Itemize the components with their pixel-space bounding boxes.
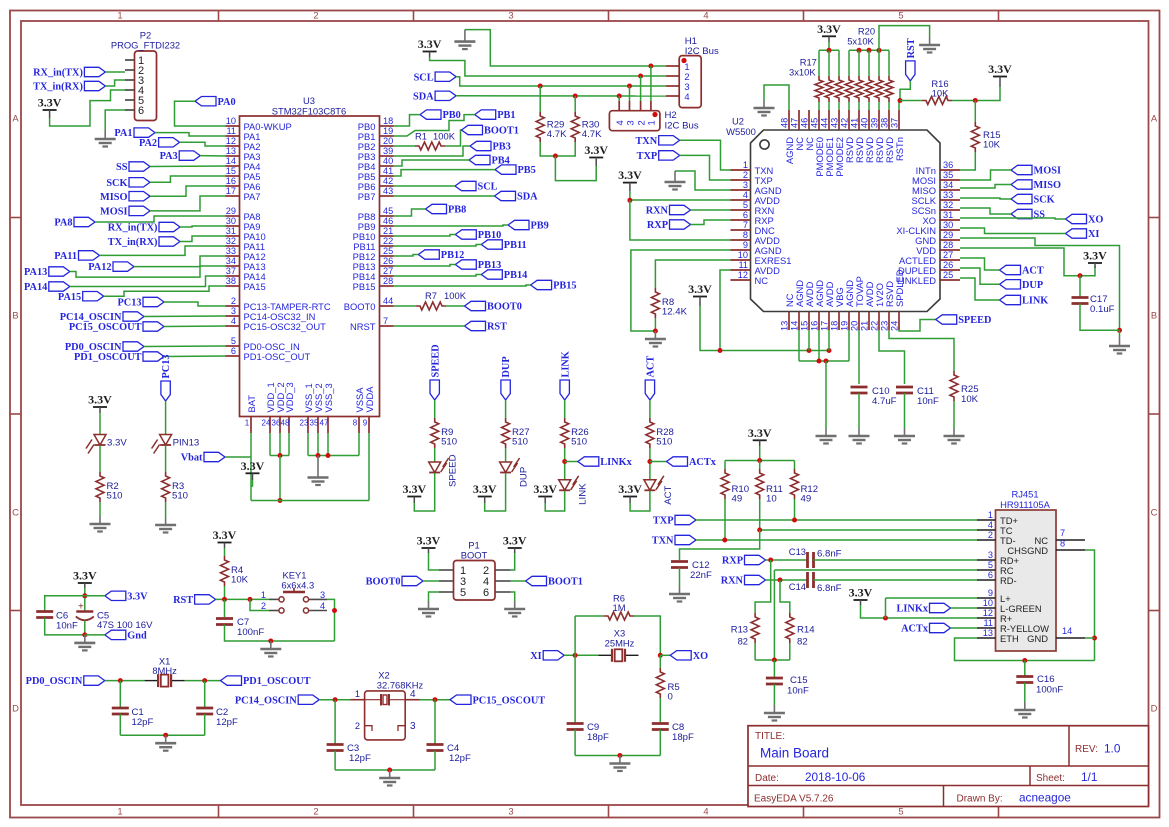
wire U3 pin 40 to PB4 xyxy=(394,160,470,166)
U2 pin 45 PMODE0 xyxy=(818,110,820,130)
svg-text:49: 49 xyxy=(732,494,743,505)
net flag RXN u2 xyxy=(670,205,691,214)
svg-text:1: 1 xyxy=(261,590,266,600)
wire PD0_OSCIN to X1 xyxy=(105,680,145,682)
junction X1 ground xyxy=(163,733,168,738)
resistor R11 xyxy=(756,469,764,499)
U2 pin 2 TXP xyxy=(731,179,751,181)
U3 pin 44 BOOT0 xyxy=(380,305,394,307)
svg-text:I2C Bus: I2C Bus xyxy=(665,121,699,132)
resistor R15 xyxy=(971,122,979,152)
wire C4 bottom xyxy=(434,751,436,771)
svg-text:4: 4 xyxy=(743,190,748,200)
svg-text:24: 24 xyxy=(890,321,900,331)
wire VDDA to rail xyxy=(368,433,370,501)
resistor R29 xyxy=(536,112,544,142)
svg-text:5: 5 xyxy=(988,560,993,570)
U2 pin 22 1V2O xyxy=(878,312,880,331)
junction X2 ground xyxy=(387,768,392,773)
U3 pin 16 PA6 xyxy=(226,185,240,187)
svg-text:11: 11 xyxy=(983,618,993,628)
svg-text:30: 30 xyxy=(943,220,953,230)
svg-text:16: 16 xyxy=(226,176,236,186)
svg-text:12pF: 12pF xyxy=(132,717,154,728)
svg-text:PB1: PB1 xyxy=(497,110,515,121)
wire TC row xyxy=(760,529,977,531)
U3 pin 27 PB14 xyxy=(380,275,394,277)
net flag ACT u2 xyxy=(1000,265,1021,274)
U2 pin 42 RSVD xyxy=(848,110,850,130)
resistor R4 xyxy=(221,556,229,586)
svg-text:R7: R7 xyxy=(425,290,437,301)
wire PA0 to U3 pin 10 xyxy=(175,101,226,126)
svg-text:PA2: PA2 xyxy=(139,138,157,149)
RJ451 pin 7 NC xyxy=(1056,539,1085,541)
svg-text:R13: R13 xyxy=(731,624,748,635)
U2 pin 24 SPDLED xyxy=(898,312,900,331)
svg-text:13: 13 xyxy=(983,628,993,638)
net flag RST u3 xyxy=(465,321,486,330)
svg-text:6.8nF: 6.8nF xyxy=(817,583,842,594)
net flag SCK u2 xyxy=(1011,194,1032,203)
svg-text:ACT: ACT xyxy=(646,356,657,378)
wire ground to H1 pin1 xyxy=(465,30,666,66)
svg-text:28: 28 xyxy=(943,240,953,250)
wire left riser R6 xyxy=(574,616,576,655)
svg-text:LINKx: LINKx xyxy=(600,457,632,468)
U2 pin 6 RXP xyxy=(731,219,751,221)
svg-text:LINK: LINK xyxy=(578,483,589,505)
svg-text:GND: GND xyxy=(1027,633,1048,644)
junction R30 on SDA xyxy=(573,94,578,99)
wire RC to C15 xyxy=(773,570,775,660)
wire MISO to U3 pin 16 xyxy=(150,186,226,196)
wire U3 pin 46 to PB9 xyxy=(394,225,509,226)
svg-text:41: 41 xyxy=(850,118,860,128)
U3 pin 22 PB11 xyxy=(380,245,394,247)
ground U2 AGND xyxy=(665,171,686,190)
wire R30 top xyxy=(574,96,576,112)
net flag PD0_OSCIN x1 xyxy=(84,676,105,685)
ground U2 AGND bus xyxy=(816,428,837,444)
svg-text:510: 510 xyxy=(441,437,457,448)
svg-text:PA11: PA11 xyxy=(54,251,77,262)
wire R11 bottom xyxy=(759,499,761,530)
X2 internal crystal glyph xyxy=(365,699,381,701)
wire U2 pin29 GND xyxy=(960,238,1120,330)
svg-text:1: 1 xyxy=(355,689,360,699)
X2 unused pin stubs xyxy=(365,726,372,731)
junction R10 TXN xyxy=(722,538,727,543)
svg-text:LINKx: LINKx xyxy=(897,604,929,615)
svg-text:ACT: ACT xyxy=(663,485,674,504)
wire 3.3V node xyxy=(84,588,86,612)
wire U3 pin 42 to SCL xyxy=(394,185,456,187)
U2 pin 12 NC xyxy=(731,279,751,281)
U2 pin 18 VBG xyxy=(838,312,840,331)
svg-text:RX_in(TX): RX_in(TX) xyxy=(33,68,83,79)
svg-text:3.3V: 3.3V xyxy=(418,37,442,51)
wire R27 to led xyxy=(505,448,507,462)
title block outline xyxy=(748,726,1149,807)
wire C6 bottom xyxy=(45,618,85,635)
wire 3.3V to LED1 xyxy=(99,413,101,434)
wire AGND bus to ground xyxy=(825,361,827,428)
net flag PB3 xyxy=(470,141,491,150)
junction VDD xyxy=(278,453,283,458)
svg-text:HR911105A: HR911105A xyxy=(1000,499,1050,510)
net flag PD1_OSCOUT x1 xyxy=(221,676,242,685)
wire RXN to R14 xyxy=(780,580,790,613)
svg-text:MOSI: MOSI xyxy=(100,207,127,218)
svg-text:27: 27 xyxy=(943,250,953,260)
frame column ticks xyxy=(218,11,220,22)
U3 pin 31 PA10 xyxy=(226,235,240,237)
wire U2 pin35 to MOSI xyxy=(960,170,1011,180)
RJ451 pin 2 TD- xyxy=(977,539,996,541)
svg-text:SCL: SCL xyxy=(414,72,434,83)
svg-text:XI: XI xyxy=(1088,229,1099,240)
wire C1 bottom xyxy=(119,714,121,735)
junction H2 pin2 on bus xyxy=(638,74,643,79)
svg-text:44: 44 xyxy=(820,118,830,128)
svg-text:6: 6 xyxy=(483,587,489,599)
svg-text:SCK: SCK xyxy=(1034,195,1055,206)
junction R29 on SCL xyxy=(538,84,543,89)
svg-text:10: 10 xyxy=(766,494,777,505)
R20 resistor at x=849 xyxy=(848,50,850,76)
net flag XI u2 xyxy=(1066,229,1087,238)
wire PA12 to U3 pin 33 xyxy=(134,256,226,267)
svg-text:CHSGND: CHSGND xyxy=(1007,545,1048,556)
svg-text:5: 5 xyxy=(460,587,466,599)
wire bottom 3.3V rail xyxy=(251,500,369,502)
svg-text:6: 6 xyxy=(231,346,236,356)
U3 pin 10 PA0-WKUP xyxy=(226,125,240,127)
svg-text:MISO: MISO xyxy=(1034,180,1061,191)
svg-text:4: 4 xyxy=(410,689,416,700)
svg-text:100nF: 100nF xyxy=(237,627,264,638)
wire C11 to ground xyxy=(904,393,906,428)
U2 pin 11 AVDD xyxy=(731,269,751,271)
wire U2 pin27 to ACT xyxy=(960,258,1000,270)
net flag PC15_OSCOUT xyxy=(143,322,164,331)
resistor R28 xyxy=(646,418,654,448)
svg-text:PA13: PA13 xyxy=(24,267,47,278)
wire LINK to R26 xyxy=(564,400,566,418)
svg-text:7: 7 xyxy=(743,220,748,230)
svg-text:PB14: PB14 xyxy=(504,270,527,281)
U2 pin 48 AGND xyxy=(788,110,790,130)
net flag PD1_OSCOUT xyxy=(143,352,164,361)
svg-text:3.3V: 3.3V xyxy=(1083,249,1107,263)
svg-text:48: 48 xyxy=(780,118,790,128)
svg-text:BOOT0: BOOT0 xyxy=(344,301,376,312)
wire U3 pin 28 to PB15 xyxy=(394,285,531,286)
U3 pin 3 PC14-OSC32_IN xyxy=(226,315,240,317)
wire SCL to H1 pin3 xyxy=(456,77,666,86)
svg-text:3.3V: 3.3V xyxy=(73,569,97,583)
junction 3.3V node xyxy=(82,593,87,598)
wire C5 bottom xyxy=(84,621,86,635)
svg-text:BOOT1: BOOT1 xyxy=(484,126,519,137)
P2 pin 2 xyxy=(125,69,135,71)
wire C2 top xyxy=(204,681,206,708)
svg-text:SCK: SCK xyxy=(106,178,127,189)
H1 pin 2 xyxy=(666,75,679,77)
svg-text:7: 7 xyxy=(1060,528,1065,538)
U3 pin 32 PA11 xyxy=(226,245,240,247)
net flag PB10 xyxy=(455,230,476,239)
U3 pin 29 PA8 xyxy=(226,215,240,217)
wire AGND16 riser xyxy=(818,330,820,361)
svg-text:48: 48 xyxy=(281,418,290,427)
svg-text:39: 39 xyxy=(383,146,393,156)
wire TX_in(RX) to U3 pin 31 xyxy=(180,236,226,242)
wire R10 bottom xyxy=(724,499,726,540)
net flag TX_in(RX) p2 xyxy=(84,81,105,90)
junction RST R4 xyxy=(222,597,227,602)
svg-text:DUP: DUP xyxy=(519,467,530,487)
wire C10 to ground xyxy=(858,393,860,428)
U3 pin 26 PB13 xyxy=(380,265,394,267)
ground R8 xyxy=(645,331,666,347)
svg-text:RST: RST xyxy=(906,38,917,58)
svg-text:Main Board: Main Board xyxy=(760,746,829,761)
wire TOVAP to C10 xyxy=(858,330,860,384)
svg-text:4: 4 xyxy=(231,316,236,326)
svg-text:21: 21 xyxy=(383,226,393,236)
wire BAT rail xyxy=(250,433,252,501)
svg-text:1: 1 xyxy=(646,120,657,125)
ground R2 xyxy=(90,516,111,532)
U2 pin 1 TXN xyxy=(731,169,751,171)
svg-text:RD-: RD- xyxy=(1000,575,1017,586)
resistor R5 xyxy=(656,668,664,698)
net flag ACTx rj xyxy=(930,623,951,632)
wire RXP to R13 xyxy=(755,560,771,613)
svg-text:DUP: DUP xyxy=(1022,280,1043,291)
resistor R14 xyxy=(786,613,794,643)
wire R17 top bus xyxy=(819,49,839,51)
U3 pin 48 VDD_3 xyxy=(288,417,290,434)
net flag PB1 xyxy=(475,110,496,119)
net flag SCL u3 xyxy=(455,181,476,190)
U2 pin 34 MISO xyxy=(940,189,960,191)
capacitor C14 xyxy=(808,572,814,588)
svg-text:SPEED: SPEED xyxy=(958,315,991,326)
wire BOOT0 to P1 pin3 xyxy=(423,580,439,582)
svg-text:13: 13 xyxy=(226,146,236,156)
svg-text:510: 510 xyxy=(571,437,587,448)
H1 pin 1 xyxy=(666,65,679,67)
svg-text:12pF: 12pF xyxy=(449,753,471,764)
ground C11 xyxy=(894,428,915,444)
svg-text:1/1: 1/1 xyxy=(1081,770,1097,784)
svg-text:37: 37 xyxy=(890,118,900,128)
U3 pin 46 PB9 xyxy=(380,225,394,227)
svg-text:3: 3 xyxy=(410,721,416,732)
capacitor C15 xyxy=(766,678,783,684)
svg-text:1M: 1M xyxy=(612,602,625,613)
junction VDD rail xyxy=(278,498,283,503)
U3 pin 42 PB6 xyxy=(380,185,394,187)
svg-text:PA8: PA8 xyxy=(54,218,72,229)
net flag PA13 xyxy=(49,267,70,276)
wire 3.3V stem R17 xyxy=(828,42,830,50)
junction GND right xyxy=(1117,328,1122,333)
svg-text:18: 18 xyxy=(383,116,393,126)
wire KEY1 pins34 to ground rail xyxy=(327,599,335,641)
RJ451 pin 12 R+ xyxy=(977,617,996,619)
wire led LINK to 3.3V xyxy=(545,491,565,511)
U3 pin 28 PB15 xyxy=(380,285,394,287)
U3 pin 1 BAT xyxy=(250,417,252,434)
resistor R13 xyxy=(751,613,759,643)
U2 pin 25 LINKLED xyxy=(940,279,960,281)
P2 pin 4 xyxy=(125,89,135,91)
wire U2 pin28 VDD xyxy=(960,248,1095,276)
wire C12 to ground xyxy=(679,568,681,587)
svg-text:22nF: 22nF xyxy=(690,570,712,581)
ground U3 VSS xyxy=(308,456,329,486)
wire AVDD17 riser xyxy=(828,330,830,351)
svg-text:B: B xyxy=(12,310,18,321)
H1 pin1 marker xyxy=(681,58,686,63)
wire XO to R5 xyxy=(659,655,661,668)
net flag XI x3 xyxy=(543,651,564,660)
net flag PB9 xyxy=(508,220,529,229)
U3 pin 38 PA15 xyxy=(226,285,240,287)
wire R29 R30 join xyxy=(540,142,575,156)
wire R5 to C8 xyxy=(659,698,661,723)
svg-text:MOSI: MOSI xyxy=(1034,166,1061,177)
svg-text:43: 43 xyxy=(383,186,393,196)
svg-text:30: 30 xyxy=(226,216,236,226)
wire U2 pin48 AGND xyxy=(764,85,789,110)
resistor R26 xyxy=(561,418,569,448)
net flag TX_in(RX) mid xyxy=(159,237,180,246)
svg-text:5: 5 xyxy=(898,10,903,21)
capacitor C9 xyxy=(567,724,584,730)
wire R3 to ground xyxy=(165,502,167,517)
wire C6 top xyxy=(45,596,85,612)
led DUP xyxy=(500,462,512,473)
svg-text:2018-10-06: 2018-10-06 xyxy=(805,770,866,784)
junction ACTx xyxy=(647,459,652,464)
wire shield ground rail xyxy=(955,638,1095,661)
svg-text:C13: C13 xyxy=(789,546,806,557)
U3 pin 19 PB1 xyxy=(380,135,394,137)
wire R14 bottom xyxy=(789,643,791,660)
wire TXP to RJ pin1 xyxy=(696,519,977,521)
svg-text:33: 33 xyxy=(943,190,953,200)
net flag PA15 xyxy=(83,292,104,301)
ground P2 xyxy=(95,131,116,147)
KEY1 pin4 lead xyxy=(309,610,328,612)
net flag PD0_OSCIN xyxy=(123,342,144,351)
ground C15 xyxy=(764,705,785,721)
svg-text:PB15: PB15 xyxy=(353,281,376,292)
svg-text:3: 3 xyxy=(508,806,513,817)
wire LED1 to R2 xyxy=(99,446,101,473)
resistor R12 xyxy=(791,469,799,499)
junction H2 pin3 on bus xyxy=(627,84,632,89)
wire VSS group xyxy=(307,433,309,456)
wire H2 pin 1 to bus xyxy=(650,66,652,101)
U3 pin 15 PA5 xyxy=(226,175,240,177)
U3 pin 30 PA9 xyxy=(226,225,240,227)
svg-text:Vbat: Vbat xyxy=(181,453,203,464)
svg-text:82: 82 xyxy=(797,637,808,648)
title block dividers xyxy=(748,765,1149,767)
junction H2 pin4 on bus xyxy=(617,94,622,99)
svg-text:RJ451: RJ451 xyxy=(1011,489,1038,500)
svg-text:15: 15 xyxy=(800,321,810,331)
U3 pin 2 PC13-TAMPER-RTC xyxy=(226,305,240,307)
svg-text:47: 47 xyxy=(790,118,800,128)
wire TXN to RJ pin2 xyxy=(696,539,977,541)
svg-text:9: 9 xyxy=(363,418,368,427)
resistor R9 xyxy=(431,418,439,448)
R20 resistor at x=869 xyxy=(868,50,870,76)
U2 pin 36 INTn xyxy=(940,169,960,171)
wire pullup rail xyxy=(725,460,795,462)
svg-text:1: 1 xyxy=(245,418,250,427)
wire C9 bottom xyxy=(574,730,576,756)
U3 pin 33 PA12 xyxy=(226,255,240,257)
svg-text:PB7: PB7 xyxy=(358,191,376,202)
svg-text:82: 82 xyxy=(738,636,748,647)
wire led DUP to 3.3V xyxy=(485,473,506,511)
junction C4 tap xyxy=(433,697,438,702)
wire C14 to RJ pin6 xyxy=(814,579,978,581)
wire U3 pin 39 to PB3 xyxy=(394,146,471,156)
resistor R8 xyxy=(651,288,659,318)
svg-text:R14: R14 xyxy=(797,625,815,636)
wire GND stem xyxy=(1119,330,1121,338)
svg-text:PC13: PC13 xyxy=(161,354,172,378)
svg-text:NC: NC xyxy=(755,275,769,286)
svg-text:3.3V: 3.3V xyxy=(584,143,608,157)
ground C12 xyxy=(669,586,690,602)
wire MOSI to U3 pin 17 xyxy=(150,196,226,211)
svg-text:3.3V: 3.3V xyxy=(988,62,1012,76)
wire C4 top xyxy=(434,700,436,744)
net flag PB13 xyxy=(455,260,476,269)
ethernet jack RJ451 body xyxy=(996,510,1057,651)
wire 3.3V to H1 pin2 xyxy=(430,57,666,76)
U3 pin 25 PB12 xyxy=(380,255,394,257)
wire KEY pin2 branch xyxy=(250,599,269,610)
wire R15 to U2 pin36 xyxy=(960,152,975,170)
wire C15 top xyxy=(773,660,775,678)
junction XI node xyxy=(573,653,578,658)
RJ451 pin 8 CHSGND xyxy=(1056,549,1085,551)
wire R15 top xyxy=(974,101,976,123)
U2 pin 28 VDD xyxy=(940,249,960,251)
svg-text:3.3V: 3.3V xyxy=(817,22,841,36)
svg-text:18: 18 xyxy=(830,321,840,331)
svg-text:10nF: 10nF xyxy=(917,396,939,407)
junction R8 ground xyxy=(653,329,658,334)
svg-text:3: 3 xyxy=(508,10,513,21)
net flag SPEED column xyxy=(430,380,439,400)
wire AGND19 riser xyxy=(848,330,850,361)
svg-text:32: 32 xyxy=(943,200,953,210)
svg-text:PIN13: PIN13 xyxy=(173,438,200,449)
wire ACTx to RJ pin11 xyxy=(951,627,978,629)
